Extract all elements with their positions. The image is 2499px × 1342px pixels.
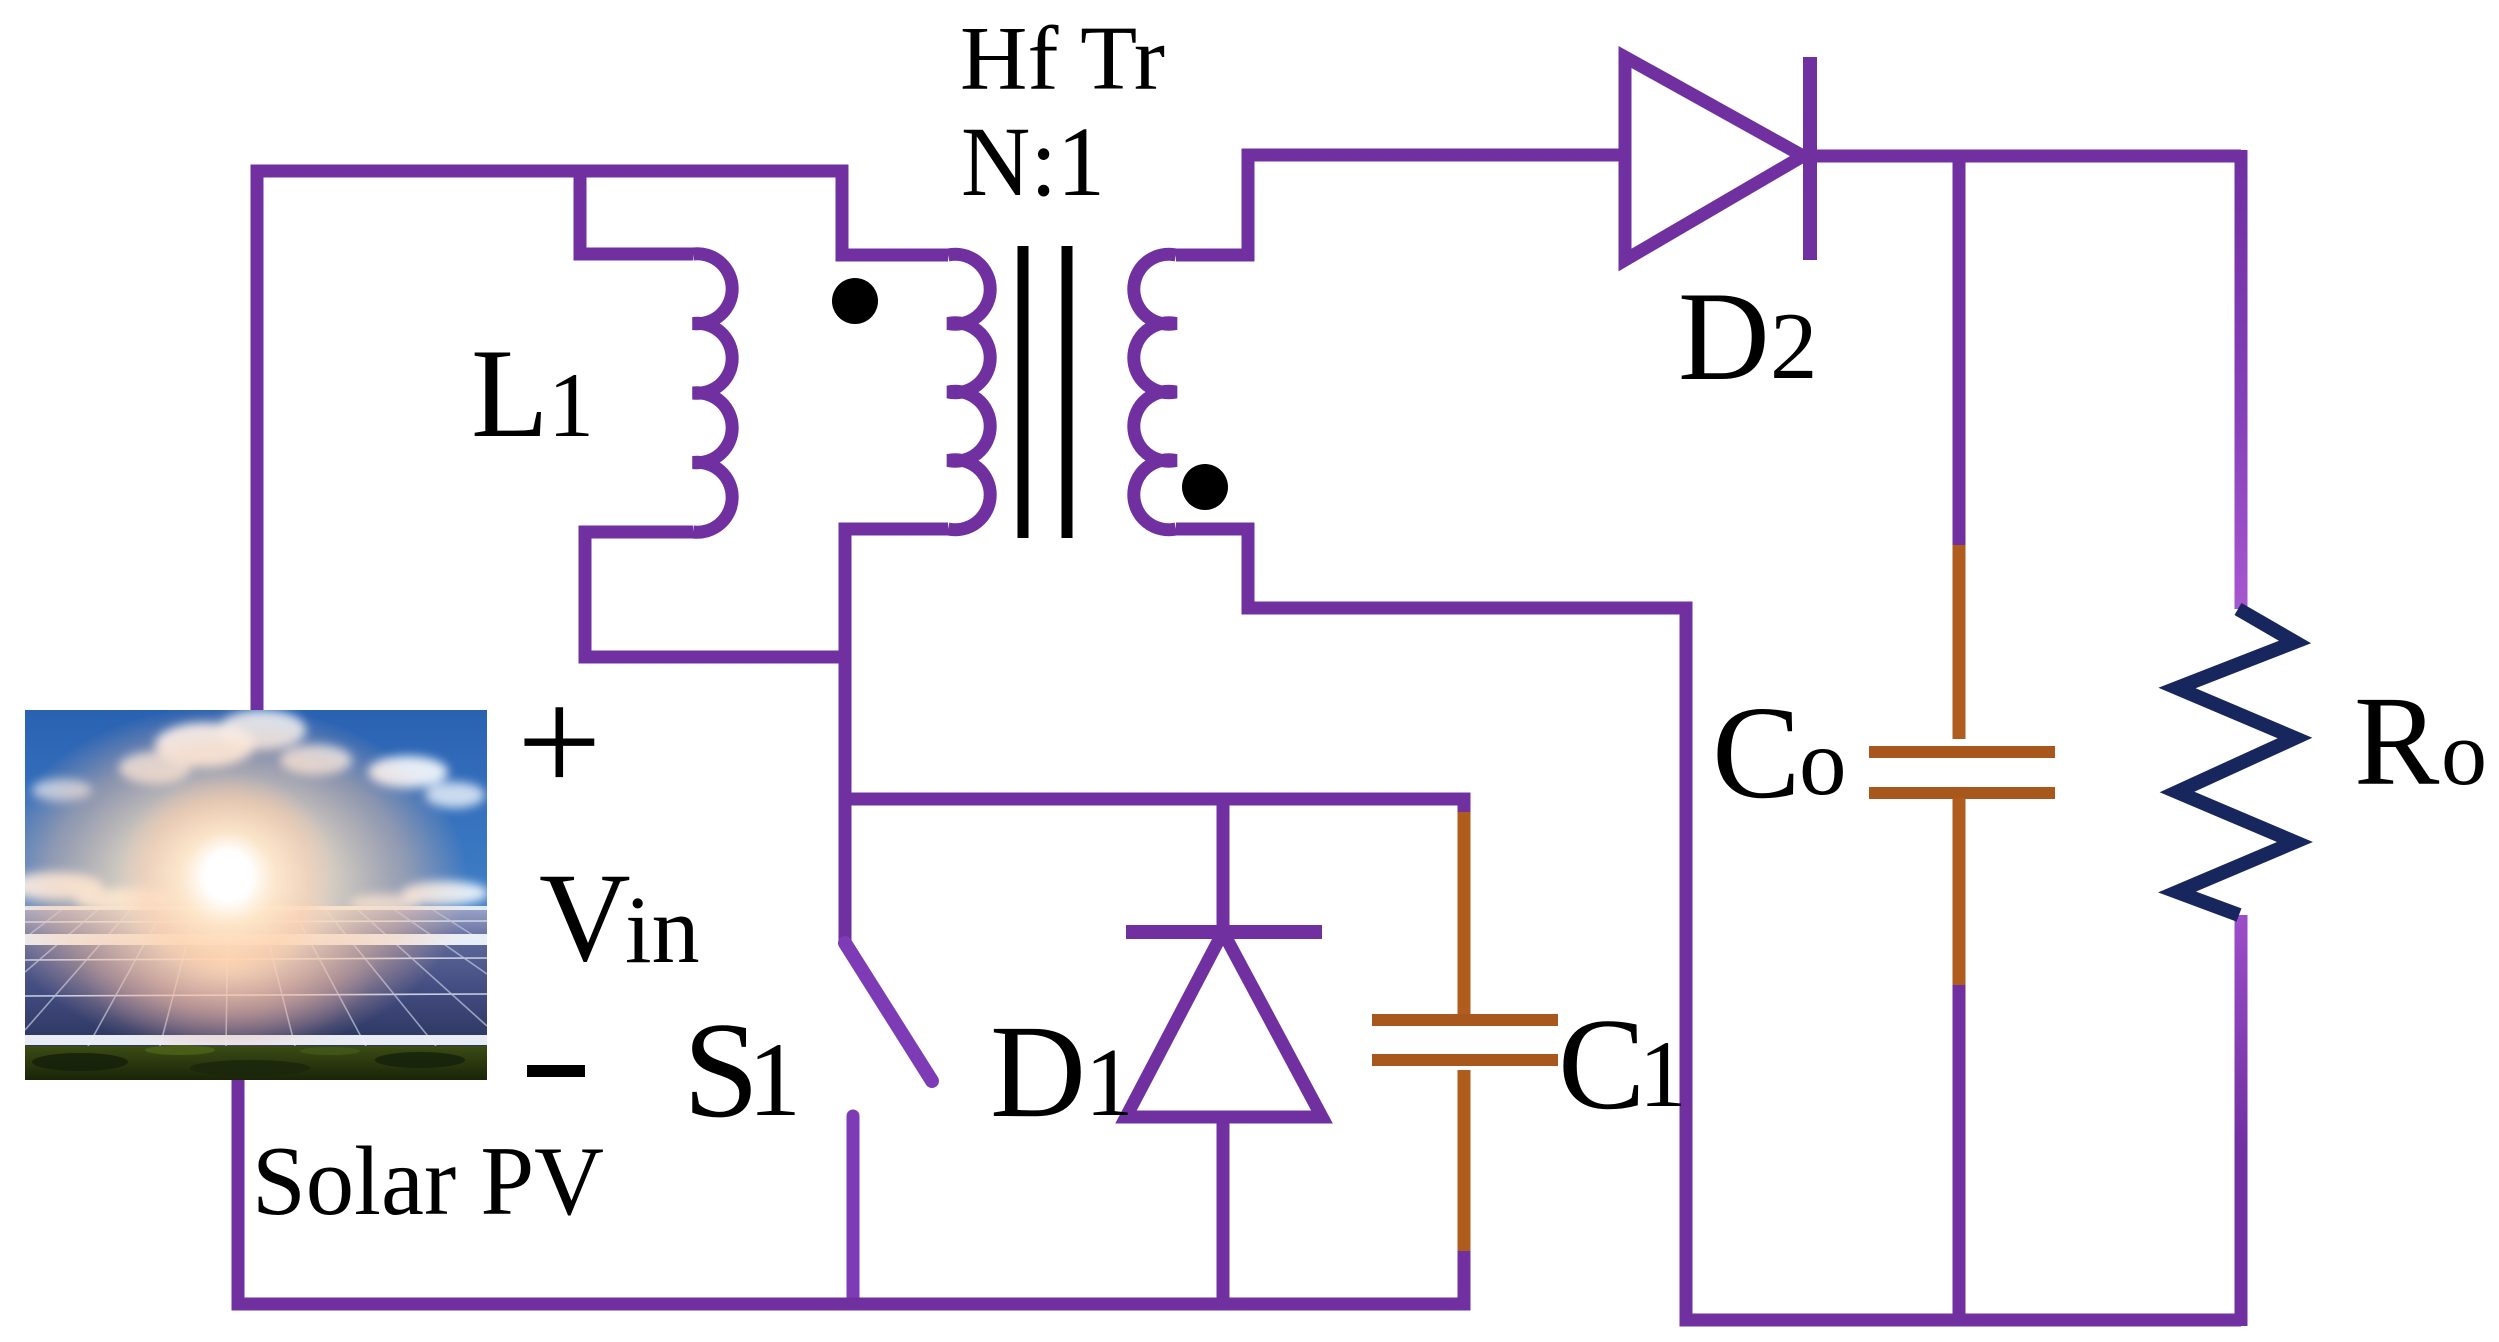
diode D1 bottom lead [1217, 1117, 1230, 1304]
svg-text:Hf Tr: Hf Tr [960, 8, 1165, 109]
wire: L1 bottom lead wrapping down to switch node [585, 532, 845, 657]
svg-text:C: C [1558, 992, 1645, 1137]
svg-text:D: D [1678, 267, 1770, 407]
resistor Ro zigzag [2177, 609, 2295, 915]
diode D1 cathode bar [1126, 925, 1322, 939]
capacitor C1 plates [1372, 1020, 1558, 1060]
diode D2 triangle [1625, 57, 1803, 260]
capacitor C1 top lead (brown) [1458, 812, 1471, 1018]
wire: switch node horizontal to snubber D1 / C1 top rail [845, 799, 1464, 815]
svg-text:2: 2 [1770, 293, 1818, 399]
svg-text:Solar PV: Solar PV [252, 1127, 604, 1236]
svg-text:1: 1 [748, 1021, 801, 1138]
svg-text:N:1: N:1 [961, 106, 1105, 217]
label minus [527, 1065, 585, 1077]
switch S1 blade [845, 943, 932, 1081]
svg-text:o: o [1799, 709, 1847, 815]
wire: junction down to capacitor Co top lead (purple part) [1953, 156, 1966, 548]
capacitor Co plates [1869, 752, 2055, 793]
svg-text:V: V [539, 848, 631, 988]
svg-text:in: in [625, 876, 700, 983]
transformer U1 core [1023, 246, 1067, 538]
svg-text:D: D [990, 997, 1086, 1145]
diode D1 top lead [1217, 799, 1230, 932]
svg-text:1: 1 [1639, 1021, 1687, 1127]
capacitor Co top lead (brown) [1953, 545, 1966, 739]
wire: branch from top bus down to L1 top lead [580, 165, 693, 254]
svg-text:C: C [1712, 678, 1801, 826]
wire: D2 cathode to output top-right corner [1805, 150, 2241, 163]
wire: secondary bottom lead, return bus down and right along output ground [1176, 529, 2241, 1320]
diode D2 cathode bar [1803, 57, 1817, 260]
svg-text:1: 1 [1085, 1029, 1134, 1136]
switch S1 lower terminal stub [847, 1116, 860, 1304]
svg-text:1: 1 [548, 354, 594, 456]
diode D1 triangle [1126, 932, 1322, 1117]
wire: input plus rail (PV+ up, top bus to transformer primary top lead) [257, 171, 948, 712]
capacitor Co bottom lead (brown then purple to output ground bus) [1953, 798, 1966, 987]
capacitor C1 bottom lead (brown then purple) [1458, 1070, 1471, 1253]
transformer U1 primary winding [948, 254, 990, 530]
svg-text:R: R [2354, 670, 2440, 812]
svg-text:o: o [2441, 702, 2487, 804]
wire: secondary top lead up to output bus toward D2 anode [1176, 155, 1625, 255]
inductor L1 [693, 254, 732, 533]
svg-text:+: + [517, 659, 602, 825]
wire: primary bottom lead down to switch S1 [845, 529, 948, 943]
svg-text:L: L [471, 324, 549, 464]
Solar PV photo [0, 705, 489, 1080]
dot: primary polarity dot [832, 278, 878, 324]
wire: input ground bus (PV- along bottom to C1) [238, 1080, 1464, 1304]
transformer U1 secondary winding [1134, 254, 1176, 529]
dot: secondary polarity dot [1182, 464, 1228, 510]
